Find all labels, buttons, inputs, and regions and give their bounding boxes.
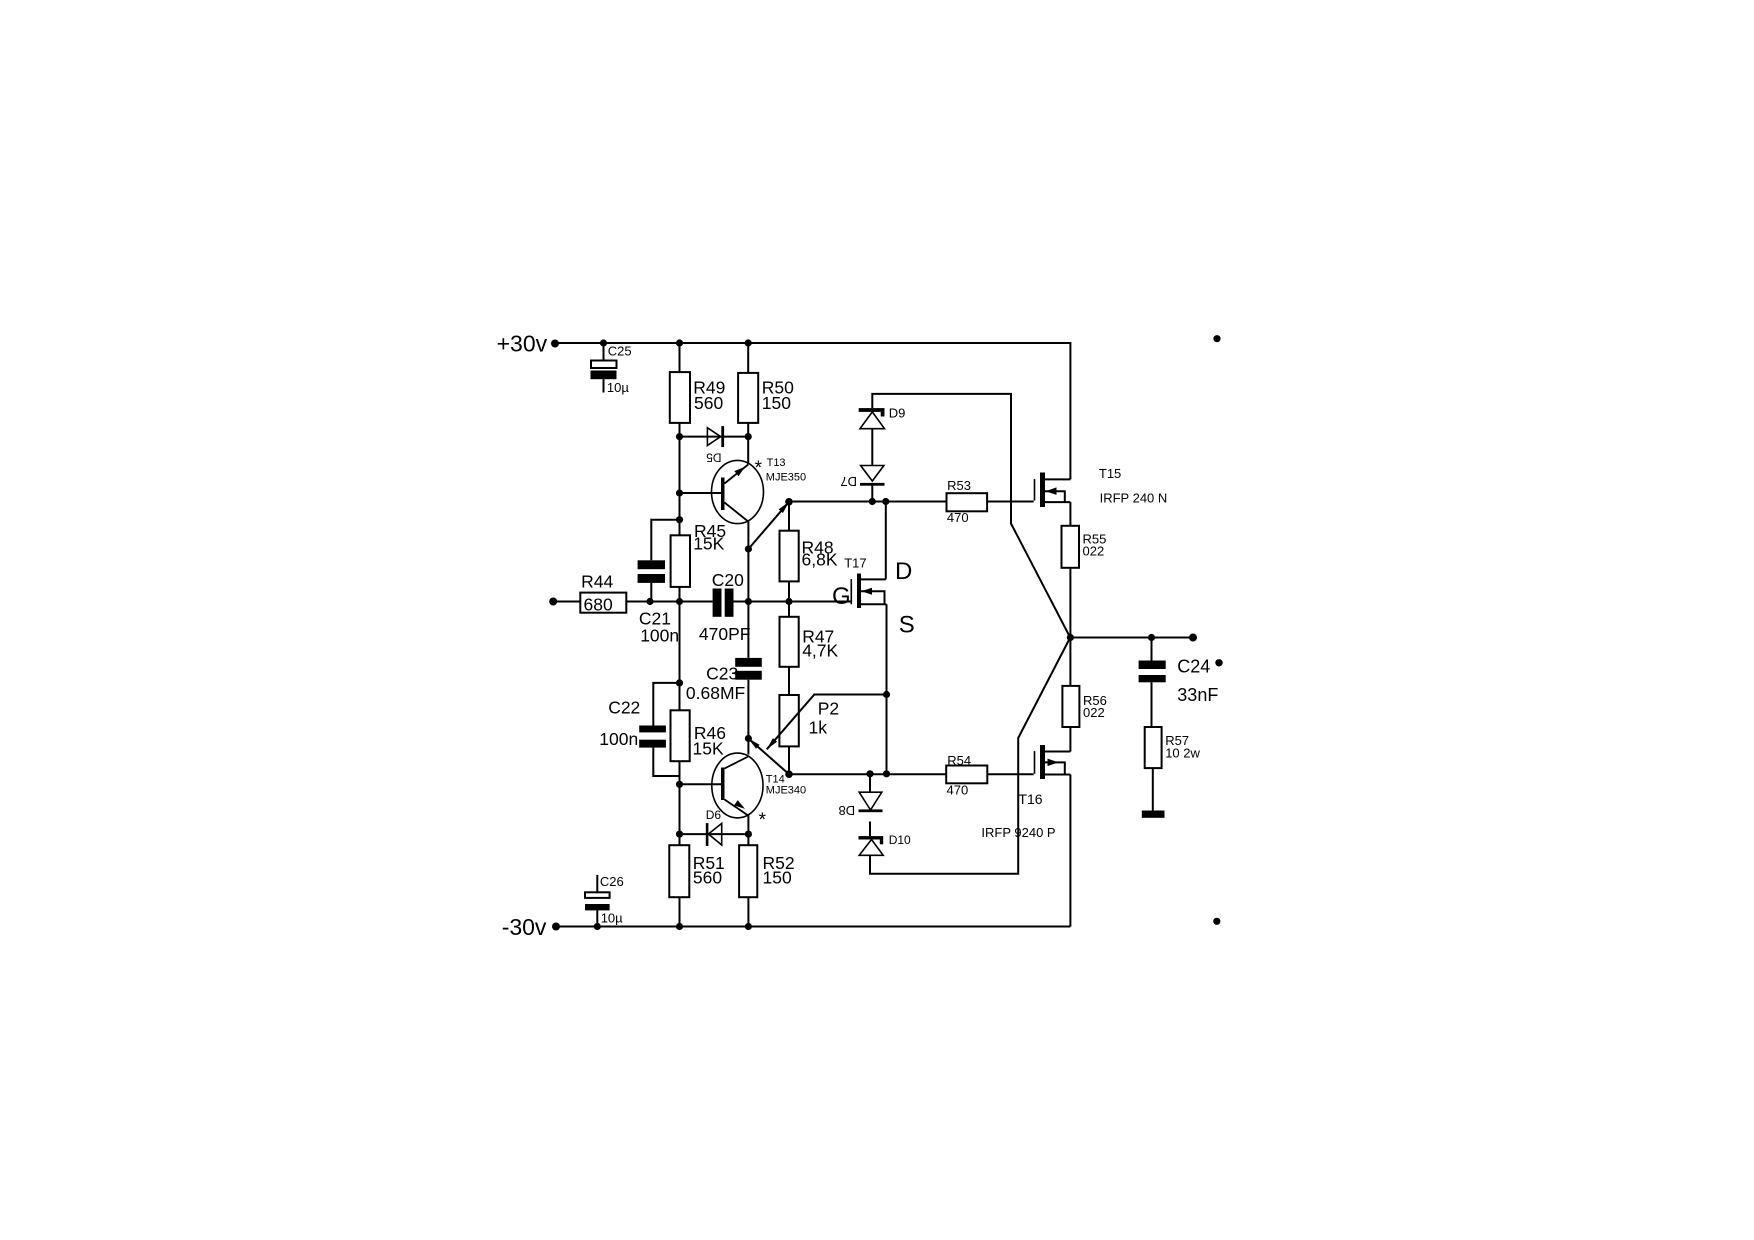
svg-text:C23: C23 bbox=[706, 664, 738, 684]
svg-text:*: * bbox=[759, 810, 767, 831]
svg-text:150: 150 bbox=[763, 868, 792, 888]
svg-text:MJE340: MJE340 bbox=[766, 784, 806, 796]
svg-text:10µ: 10µ bbox=[601, 910, 623, 925]
svg-text:R53: R53 bbox=[947, 478, 971, 493]
svg-text:470PF: 470PF bbox=[699, 624, 751, 644]
svg-text:T16: T16 bbox=[1018, 791, 1042, 807]
svg-text:D7: D7 bbox=[840, 474, 857, 489]
svg-text:D: D bbox=[895, 558, 912, 585]
svg-text:D8: D8 bbox=[839, 803, 856, 818]
svg-text:10 2w: 10 2w bbox=[1165, 745, 1200, 760]
svg-text:+30v: +30v bbox=[497, 331, 548, 357]
svg-text:G: G bbox=[832, 583, 851, 610]
svg-text:MJE350: MJE350 bbox=[766, 471, 806, 483]
svg-text:P2: P2 bbox=[818, 698, 839, 718]
svg-text:022: 022 bbox=[1083, 544, 1105, 559]
svg-text:15K: 15K bbox=[693, 534, 724, 554]
svg-text:S: S bbox=[899, 612, 915, 639]
svg-text:IRFP 240 N: IRFP 240 N bbox=[1100, 490, 1168, 505]
svg-text:C22: C22 bbox=[608, 698, 640, 718]
svg-text:IRFP 9240 P: IRFP 9240 P bbox=[981, 825, 1055, 840]
svg-text:D10: D10 bbox=[889, 833, 911, 847]
svg-text:10µ: 10µ bbox=[607, 380, 629, 395]
svg-text:100n: 100n bbox=[640, 626, 679, 646]
svg-text:C26: C26 bbox=[600, 874, 624, 889]
svg-text:T15: T15 bbox=[1099, 466, 1121, 481]
svg-text:D5: D5 bbox=[706, 451, 722, 465]
svg-text:100n: 100n bbox=[599, 729, 638, 749]
svg-text:T13: T13 bbox=[767, 457, 786, 469]
svg-text:*: * bbox=[755, 458, 763, 479]
svg-text:-30v: -30v bbox=[502, 914, 547, 940]
svg-text:470: 470 bbox=[947, 783, 969, 798]
svg-text:1k: 1k bbox=[809, 717, 828, 737]
svg-text:560: 560 bbox=[694, 393, 723, 413]
svg-text:R44: R44 bbox=[581, 572, 613, 592]
svg-text:D9: D9 bbox=[889, 405, 906, 420]
svg-text:C24: C24 bbox=[1177, 657, 1210, 677]
svg-text:0.68MF: 0.68MF bbox=[686, 683, 745, 703]
svg-text:680: 680 bbox=[584, 594, 613, 614]
svg-text:15K: 15K bbox=[693, 739, 724, 759]
svg-text:022: 022 bbox=[1083, 705, 1105, 720]
svg-text:470: 470 bbox=[947, 510, 969, 525]
svg-text:C20: C20 bbox=[712, 570, 744, 590]
svg-text:D6: D6 bbox=[706, 808, 722, 822]
svg-text:C25: C25 bbox=[608, 343, 632, 358]
svg-text:6,8K: 6,8K bbox=[802, 550, 838, 570]
svg-text:150: 150 bbox=[762, 393, 791, 413]
svg-text:33nF: 33nF bbox=[1177, 685, 1218, 705]
svg-text:R54: R54 bbox=[947, 753, 971, 768]
svg-text:T17: T17 bbox=[844, 556, 866, 571]
svg-text:4,7K: 4,7K bbox=[802, 641, 838, 661]
svg-text:560: 560 bbox=[693, 868, 722, 888]
